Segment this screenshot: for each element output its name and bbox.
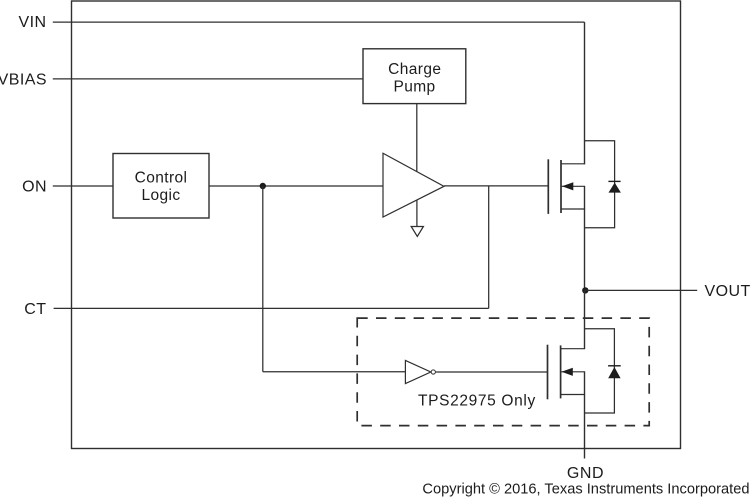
wire control logic to driver xyxy=(209,185,383,187)
diode D2 xyxy=(608,367,620,378)
svg-text:CT: CT xyxy=(24,301,46,318)
transistor Q2 source stub xyxy=(561,394,586,396)
svg-text:GND: GND xyxy=(567,465,604,482)
wire VIN horizontal xyxy=(53,21,585,23)
wire ON to control logic xyxy=(53,185,113,187)
wire VBIAS to charge pump xyxy=(53,78,363,80)
transistor Q1 body arrow xyxy=(562,182,573,190)
node A junction dot xyxy=(260,183,266,189)
transistor Q2 body stub xyxy=(561,371,586,373)
wire charge pump output to driver xyxy=(416,104,418,172)
svg-text:Charge: Charge xyxy=(388,61,441,78)
transistor Q1 drain stub xyxy=(561,163,585,165)
IC boundary box xyxy=(72,1,681,449)
wire VOUT xyxy=(585,289,697,291)
wire buffer output to Q2 gate xyxy=(436,371,548,373)
svg-text:VBIAS: VBIAS xyxy=(0,72,47,89)
wire node A down xyxy=(262,186,264,372)
wire Q2 source/body down to GND xyxy=(584,372,586,459)
buffer U4 bubble xyxy=(431,370,435,374)
diode D1 branch wires xyxy=(585,141,615,228)
VOUT node xyxy=(582,287,588,293)
svg-text:Copyright © 2016, Texas Instru: Copyright © 2016, Texas Instruments Inco… xyxy=(422,481,749,497)
transistor Q1 gate bar xyxy=(547,159,549,214)
transistor Q2 gate bar xyxy=(547,345,549,400)
svg-text:Pump: Pump xyxy=(393,78,435,95)
svg-text:VIN: VIN xyxy=(18,14,46,31)
charge pump U2 xyxy=(363,49,466,104)
svg-text:VOUT: VOUT xyxy=(705,283,750,300)
diode D2 branch wires xyxy=(585,329,615,413)
wire node A to buffer input xyxy=(263,371,406,373)
svg-text:ON: ON xyxy=(22,178,47,195)
transistor Q2 channel bar xyxy=(560,345,562,398)
transistor Q1 channel bar xyxy=(560,160,562,213)
transistor Q1 source stub xyxy=(561,208,585,210)
wire driver output to Q1 gate xyxy=(444,185,548,187)
diode D1 cathode bar xyxy=(608,180,620,182)
svg-text:TPS22975 Only: TPS22975 Only xyxy=(418,393,536,410)
control logic U1 xyxy=(113,154,209,219)
wire driver ground stub xyxy=(416,200,418,227)
wire VIN vertical to Q1 drain xyxy=(584,22,586,164)
transistor Q1 body stub xyxy=(561,185,585,187)
wire VOUT node down to Q2 drain xyxy=(584,290,586,348)
ground xyxy=(411,227,423,237)
transistor Q2 body arrow xyxy=(562,368,573,376)
wire CT horizontal xyxy=(54,307,489,309)
driver amp U3 xyxy=(383,153,444,217)
wire CT vertical xyxy=(488,186,490,309)
buffer U4 xyxy=(405,360,430,383)
svg-text:Logic: Logic xyxy=(141,187,180,204)
diode D2 cathode bar xyxy=(608,365,621,367)
diode D1 xyxy=(609,183,621,193)
dashed box TPS22975 xyxy=(357,318,649,426)
svg-text:Control: Control xyxy=(135,169,188,186)
transistor Q2 drain stub xyxy=(561,348,586,350)
wire Q1 source/body down to VOUT node xyxy=(584,186,586,290)
